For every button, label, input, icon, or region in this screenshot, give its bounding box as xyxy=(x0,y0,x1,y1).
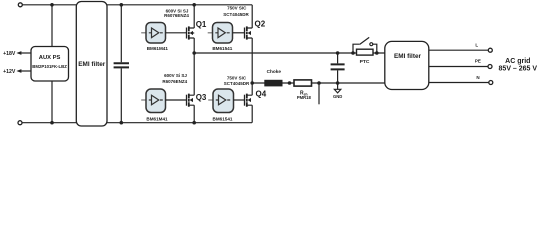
wire right leg vertical Q2 drain/source xyxy=(251,5,253,83)
svg-text:BM61M41: BM61M41 xyxy=(147,46,169,51)
gate driver U BM61541 top xyxy=(208,32,213,34)
node junction top Q1 drain xyxy=(192,3,196,7)
wire line PE xyxy=(429,66,488,68)
wire gate Q1 xyxy=(166,32,187,34)
node junction cap2 tap xyxy=(336,51,340,55)
wire +12V output arrow xyxy=(19,70,32,72)
gate driver U BM61M41 top xyxy=(141,32,146,34)
svg-text:Choke: Choke xyxy=(267,69,282,74)
filter EMI filter output box xyxy=(385,41,429,89)
resistor PTC xyxy=(357,49,374,55)
wire AUX PS vertical taps xyxy=(51,5,53,123)
svg-text:Q4: Q4 xyxy=(256,89,267,98)
gate driver U BM61541 bottom xyxy=(208,99,213,101)
resistor R_sh PMR18 xyxy=(294,80,312,86)
node junction bottom Q3 source xyxy=(192,121,196,125)
node junction PTC left xyxy=(351,51,355,55)
wire Q1 drain to top rail xyxy=(193,5,195,28)
power supply U AUX PS box xyxy=(31,47,69,82)
svg-text:Q2: Q2 xyxy=(255,20,266,29)
node terminal L xyxy=(488,48,492,52)
transistor Q1 MOSFET xyxy=(186,28,188,39)
svg-text:R6076ENZ4: R6076ENZ4 xyxy=(164,13,189,18)
switch relay bypass xyxy=(353,44,377,53)
svg-text:BM61M41: BM61M41 xyxy=(146,116,168,121)
svg-text:AC grid: AC grid xyxy=(505,58,530,65)
node terminal N xyxy=(489,81,493,85)
node junction top AUX tap xyxy=(50,3,54,7)
wire bottom rail xyxy=(22,122,252,124)
svg-text:+18V: +18V xyxy=(3,51,16,57)
node junction PTC right xyxy=(375,51,379,55)
wire gate Q3 xyxy=(166,99,187,101)
svg-text:EMI filter: EMI filter xyxy=(78,61,105,68)
node DC- terminal xyxy=(18,121,22,125)
wire Q4 source to bottom rail xyxy=(251,105,253,123)
node junction bottom AUX xyxy=(50,121,54,125)
gate driver U BM61M41 bottom xyxy=(141,99,146,101)
node junction left leg midpoint xyxy=(192,51,196,55)
svg-text:750V SiC: 750V SiC xyxy=(227,6,247,11)
node DC+ terminal xyxy=(18,3,22,7)
svg-text:SCT4045DR: SCT4045DR xyxy=(224,81,250,86)
node junction choke-Rsh xyxy=(288,81,292,85)
svg-text:PE: PE xyxy=(475,59,481,64)
transistor Q2 MOSFET xyxy=(244,28,246,39)
node junction right leg midpoint xyxy=(250,81,254,85)
wire Q3 source to bottom rail xyxy=(193,105,195,123)
svg-text:GND: GND xyxy=(333,94,342,99)
svg-text:+12V: +12V xyxy=(3,69,16,75)
node terminal PE xyxy=(488,65,492,69)
wire Q4 drain from low rail xyxy=(251,83,253,95)
transistor Q3 MOSFET xyxy=(186,95,188,106)
wire low rail AC neutral path xyxy=(252,82,385,84)
capacitor C2 xyxy=(337,53,339,83)
svg-text:BM61541: BM61541 xyxy=(213,116,233,121)
svg-text:N: N xyxy=(476,75,479,80)
wire gate Q2 xyxy=(233,32,245,34)
wire current sense stub xyxy=(318,83,320,104)
capacitor C1 DC bus xyxy=(120,5,122,123)
svg-text:PTC: PTC xyxy=(360,59,370,65)
wire +18V output arrow xyxy=(19,52,32,54)
svg-text:PMR18: PMR18 xyxy=(297,95,312,100)
svg-text:SCT4045DR: SCT4045DR xyxy=(223,12,249,17)
filter EMI filter input box xyxy=(76,2,107,127)
ground GND symbol xyxy=(337,83,339,89)
svg-text:Q3: Q3 xyxy=(196,93,207,102)
svg-text:BM61541: BM61541 xyxy=(212,46,232,51)
wire line N xyxy=(429,82,489,84)
svg-text:AUX PS: AUX PS xyxy=(39,55,61,61)
svg-text:750V SiC: 750V SiC xyxy=(227,76,247,81)
node junction top cap1 xyxy=(120,3,124,7)
wire mid rail AC line path xyxy=(194,52,385,54)
wire line L xyxy=(429,49,489,51)
svg-text:85V – 265 V: 85V – 265 V xyxy=(499,66,538,73)
node junction Rsh right / sense tap xyxy=(317,81,321,85)
transistor Q4 MOSFET xyxy=(244,95,246,106)
svg-text:L: L xyxy=(475,43,478,48)
node junction bottom cap1 xyxy=(120,121,124,125)
svg-text:Q1: Q1 xyxy=(196,20,207,29)
wire Q1 source to mid rail xyxy=(193,38,195,53)
wire top rail left xyxy=(22,4,252,6)
svg-text:EMI filter: EMI filter xyxy=(394,53,421,60)
inductor Choke xyxy=(264,80,282,87)
svg-text:BM2P101FK-LBZ: BM2P101FK-LBZ xyxy=(32,64,67,69)
node junction GND tap xyxy=(336,81,340,85)
wire gate Q4 xyxy=(234,99,245,101)
svg-text:R6076ENZ4: R6076ENZ4 xyxy=(162,79,187,84)
svg-text:600V Si SJ: 600V Si SJ xyxy=(164,73,187,78)
wire Q3 drain to mid rail xyxy=(193,53,195,95)
